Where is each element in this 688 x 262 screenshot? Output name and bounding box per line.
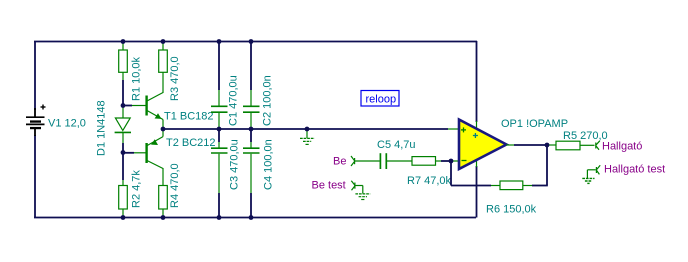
wire op-amp output bbox=[506, 144, 547, 146]
svg-text:C2 100,0n: C2 100,0n bbox=[262, 75, 274, 126]
resistor R3 bbox=[159, 41, 168, 93]
text box reloop bbox=[361, 91, 399, 107]
junction dot bottom rail R2 bbox=[121, 215, 126, 220]
op-amp inverting input marker - bbox=[462, 160, 467, 162]
svg-text:C5 4,7u: C5 4,7u bbox=[377, 139, 416, 151]
svg-text:Be: Be bbox=[333, 156, 346, 168]
diode D1 bbox=[115, 106, 131, 144]
svg-text:Hallgató: Hallgató bbox=[602, 141, 642, 153]
wire Hallgato test port to ground bbox=[587, 170, 595, 178]
wire R7 to node C bbox=[441, 160, 451, 162]
op-amp non-inverting input marker + bbox=[461, 127, 466, 132]
battery V1 bbox=[26, 105, 46, 137]
wire node A to T1 base bbox=[123, 105, 146, 107]
svg-text:Hallgató test: Hallgató test bbox=[604, 164, 665, 176]
op-amp U1 OP1 supply - lead stub bbox=[476, 160, 478, 167]
wire top rail bbox=[34, 41, 477, 43]
wire R1 to node A bbox=[122, 80, 124, 106]
wire D1 to node B bbox=[122, 143, 124, 153]
svg-text:R5 270,0: R5 270,0 bbox=[563, 130, 608, 142]
ground (Hallgato test) bbox=[582, 178, 594, 183]
svg-text:R7 47,0k: R7 47,0k bbox=[407, 175, 452, 187]
wire node B to R2 bbox=[122, 153, 124, 181]
wire output node to R5 bbox=[547, 144, 556, 146]
junction dot top rail C2 bbox=[249, 39, 254, 44]
svg-text:T2 BC212: T2 BC212 bbox=[166, 137, 216, 149]
junction dot bottom rail C4 bbox=[249, 215, 254, 220]
junction dot middle rail ground tap bbox=[305, 127, 310, 132]
capacitor C4 bbox=[243, 129, 260, 218]
port Be test (input) bbox=[351, 181, 355, 191]
port Hallgato test bbox=[596, 165, 600, 174]
resistor R4 bbox=[159, 168, 168, 218]
transistor Q2 T2 BC212 bbox=[147, 129, 163, 169]
wire Be test port to ground bbox=[355, 186, 363, 194]
resistor R5 bbox=[556, 141, 595, 150]
svg-text:OP1 !OPAMP: OP1 !OPAMP bbox=[501, 118, 568, 130]
junction dot middle rail C1 bbox=[217, 127, 222, 132]
ground (Be test) bbox=[355, 194, 370, 200]
resistor R1 bbox=[119, 41, 128, 80]
node OUT junction dot (emitters) bbox=[161, 127, 166, 132]
port Be (input) bbox=[351, 156, 355, 166]
svg-text:R6 150,0k: R6 150,0k bbox=[486, 204, 537, 216]
junction dot middle rail C2 bbox=[249, 127, 254, 132]
svg-text:C3 470,0u: C3 470,0u bbox=[229, 139, 241, 190]
capacitor C1 bbox=[211, 41, 228, 129]
wire op-amp positive supply vertical bbox=[476, 41, 478, 122]
svg-text:R1 10,0k: R1 10,0k bbox=[131, 56, 143, 101]
wire bottom rail bbox=[34, 217, 476, 219]
wire node B to T2 base bbox=[123, 152, 146, 154]
wire node C to op-amp inverting input bbox=[451, 160, 459, 162]
transistor Q1 T1 BC182 bbox=[147, 93, 163, 130]
svg-text:Be test: Be test bbox=[312, 180, 346, 192]
wire left vertical upper bbox=[34, 41, 36, 110]
node OUT2 junction dot (output) bbox=[545, 143, 550, 148]
svg-text:V1 12,0: V1 12,0 bbox=[48, 118, 86, 130]
svg-text:reloop: reloop bbox=[366, 94, 397, 106]
svg-text:C4 100,0n: C4 100,0n bbox=[263, 139, 275, 190]
op-amp U1 OP1 supply + lead stub bbox=[476, 121, 478, 129]
node C junction dot (inverting input) bbox=[449, 159, 454, 164]
wire feedback bottom right segment bbox=[523, 185, 548, 187]
resistor R2 bbox=[119, 180, 128, 218]
junction dot top rail R1 bbox=[121, 39, 126, 44]
svg-text:R2 4,7k: R2 4,7k bbox=[131, 170, 143, 208]
svg-text:D1 1N4148: D1 1N4148 bbox=[96, 100, 108, 156]
junction dot top rail C1 bbox=[217, 39, 222, 44]
svg-text:R3 470,0: R3 470,0 bbox=[169, 56, 181, 101]
resistor R6 bbox=[500, 181, 523, 190]
wire middle rail (emitters to op-amp +) bbox=[163, 128, 459, 130]
wire feedback node C down bbox=[450, 161, 452, 186]
capacitor C3 bbox=[211, 129, 228, 218]
resistor R7 bbox=[412, 157, 441, 166]
wire feedback up to output node bbox=[546, 145, 548, 186]
node A junction dot bbox=[121, 103, 126, 108]
capacitor C5 bbox=[380, 153, 412, 169]
op-amp positive supply marker + bbox=[473, 133, 478, 138]
wire op-amp negative supply vertical bbox=[476, 166, 478, 218]
junction dot bottom rail R4 bbox=[161, 215, 166, 220]
op-amp U1 OP1 triangle bbox=[459, 120, 507, 170]
capacitor C2 bbox=[243, 41, 260, 129]
ground (middle rail) bbox=[300, 129, 315, 144]
wire left vertical lower bbox=[34, 135, 36, 218]
node B junction dot bbox=[121, 150, 126, 155]
junction dot bottom rail C3 bbox=[217, 215, 222, 220]
svg-text:R4 470,0: R4 470,0 bbox=[169, 163, 181, 208]
wire Be to C5 bbox=[355, 160, 380, 162]
port Hallgato (output) bbox=[596, 141, 600, 150]
svg-text:T1 BC182: T1 BC182 bbox=[164, 111, 214, 123]
junction dot top rail R3 bbox=[161, 39, 166, 44]
wire feedback bottom left segment bbox=[451, 185, 500, 187]
svg-text:C1 470,0u: C1 470,0u bbox=[228, 75, 240, 126]
